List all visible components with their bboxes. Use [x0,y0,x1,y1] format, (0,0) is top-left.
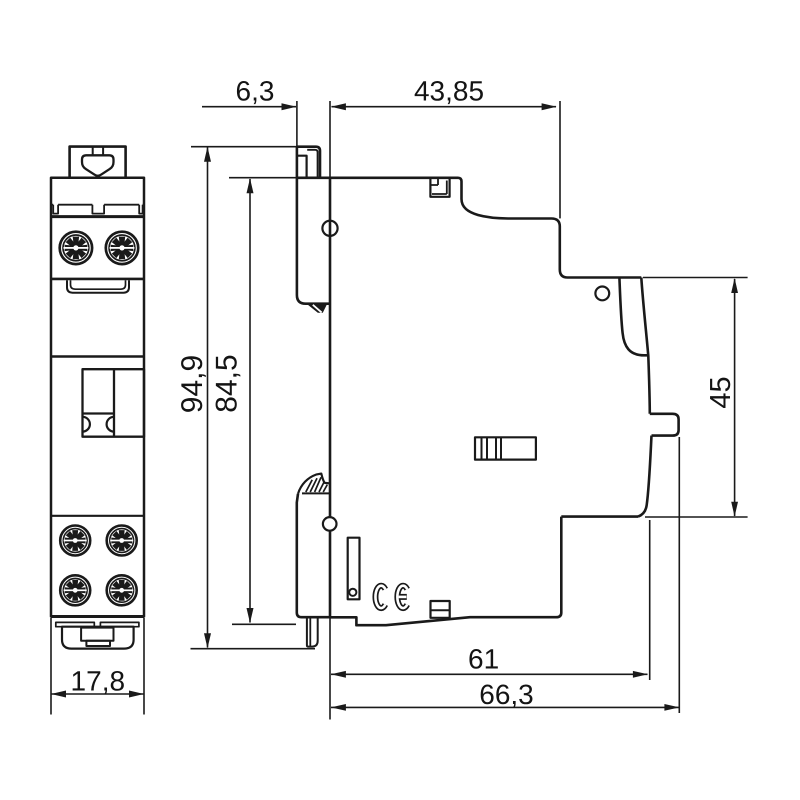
side view top step and S-curve to rear [458,178,641,278]
front view label tray [67,280,129,292]
svg-text:61: 61 [468,644,499,675]
extension lines 94,9 [191,146,300,148]
side view lower clip hook [298,474,330,494]
side view rear tab [650,414,679,436]
svg-text:94,9: 94,9 [176,355,209,413]
front view divider line below screws [51,278,144,281]
extension line 43,85 right [559,101,561,218]
side view switch detail box [475,437,536,459]
svg-text:17,8: 17,8 [71,666,126,697]
dimension line 94,9 [207,148,209,648]
CE mark [375,586,407,608]
side view lower small circle on face [323,517,337,531]
side view lower front clip block [297,494,330,617]
side view bottom small terminal box [431,601,450,618]
front view switch window [83,369,145,437]
front view upper terminal band thick line [51,215,144,218]
front view middle divider line [51,355,144,358]
front view lower divider line [51,515,144,517]
side view body top edge [297,177,458,180]
side view bottom edge [330,617,556,625]
extension lines 17,8 [51,618,144,715]
side view rear step [561,515,638,518]
front view upper terminal band thin line with notches [51,204,144,206]
front view bottom clip body [62,627,134,649]
side view lower clip foot [307,617,318,646]
dimension 6,3 leader [202,106,296,108]
side view front face line [329,178,332,618]
side view small circle upper [322,221,337,236]
side view upper front clip block [297,147,330,304]
side view release lever rear top [619,278,648,356]
side view rear edge below tab [638,436,652,517]
extension lines bottom dims [329,618,331,720]
extension line front face up [329,101,331,178]
front view screwdriver slot pentagon [82,155,114,175]
dimension line 61 [331,673,648,675]
side view upper clip tooth [308,305,327,313]
extension lines 45 [643,277,748,279]
dimension line 66,3 [331,706,679,708]
front view bottom clip tabs [56,622,95,626]
side view small circle rear [595,287,609,301]
dimension line 43,85 [332,106,557,108]
side view top clip notch [430,178,449,197]
svg-text:45: 45 [705,376,737,408]
front view bottom clip slider [81,628,113,641]
front view top clip tab [70,147,126,178]
dimension line 17,8 [51,693,144,695]
svg-text:43,85: 43,85 [414,76,484,107]
extension line 6,3 left [296,101,298,147]
extension lines 84,5 [229,177,297,179]
svg-text:84,5: 84,5 [211,354,244,412]
front view bottom thick line [51,615,144,618]
side view slot rectangle [348,538,360,600]
dimension line 84,5 [249,179,251,623]
dimension texts [71,76,737,711]
dimension line 45 [734,279,736,516]
svg-text:6,3: 6,3 [236,76,275,107]
side view top clip tab [297,156,307,178]
side view rear face and bottom corner [556,517,561,618]
svg-text:66,3: 66,3 [479,679,534,710]
front view main body outline [51,178,144,617]
